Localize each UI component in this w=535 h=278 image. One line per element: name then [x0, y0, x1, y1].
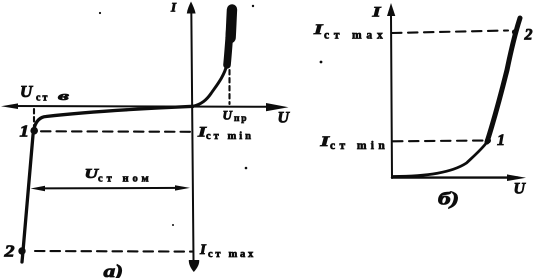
svg-text:I: I	[371, 5, 382, 21]
svg-text:U: U	[223, 108, 233, 123]
svg-text:ст ном: ст ном	[98, 174, 153, 185]
svg-text:пр: пр	[234, 114, 248, 124]
svg-text:U: U	[85, 167, 100, 182]
svg-text:I: I	[319, 134, 331, 150]
svg-text:I: I	[199, 242, 207, 258]
svg-text:I: I	[170, 0, 177, 15]
svg-text:ст min: ст min	[206, 131, 254, 142]
svg-text:1: 1	[497, 132, 505, 149]
svg-text:U: U	[278, 110, 291, 127]
svg-text:б): б)	[438, 189, 459, 210]
svg-text:I: I	[313, 22, 325, 38]
svg-text:ст: ст	[36, 93, 49, 104]
svg-text:ст max: ст max	[208, 249, 256, 260]
svg-text:1: 1	[20, 122, 30, 141]
svg-text:а): а)	[104, 261, 124, 278]
svg-text:ст min: ст min	[330, 140, 389, 152]
svg-text:ст max: ст max	[324, 30, 388, 42]
svg-text:2: 2	[3, 242, 14, 261]
svg-text:U: U	[514, 181, 527, 198]
svg-text:U: U	[20, 82, 33, 101]
svg-text:в: в	[58, 88, 69, 103]
svg-text:2: 2	[524, 27, 533, 44]
